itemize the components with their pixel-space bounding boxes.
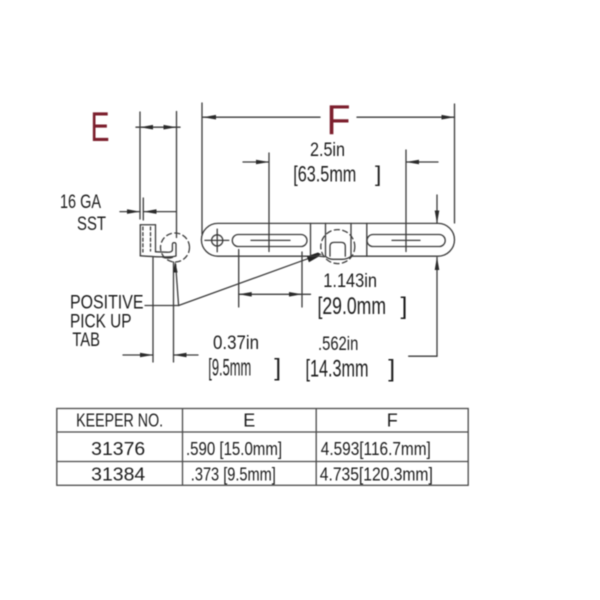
svg-text:31384: 31384 — [91, 465, 145, 485]
svg-text:2.5in: 2.5in — [310, 140, 345, 161]
svg-text:KEEPER NO.: KEEPER NO. — [76, 411, 163, 431]
svg-text:]: ] — [375, 162, 381, 187]
F right extension line — [454, 104, 456, 223]
0.37in right extension line — [173, 262, 175, 362]
svg-text:4.735[120.3mm]: 4.735[120.3mm] — [320, 465, 433, 485]
1.143in right extension line — [301, 252, 303, 307]
svg-text:F: F — [327, 96, 351, 143]
side view bottom and hook lip outer contour — [140, 243, 176, 257]
svg-text:.562in: .562in — [318, 334, 358, 355]
.562in up arrow line — [436, 258, 438, 357]
pick up tab arch — [330, 242, 345, 256]
hole crosshair vertical — [216, 229, 218, 252]
side view keeper right edge — [155, 225, 157, 252]
tab section line 4 — [366, 223, 368, 256]
2.5in left arrow line — [243, 161, 269, 163]
side view keeper top edge — [140, 224, 155, 226]
leader arrowhead at side-view tab — [173, 262, 178, 273]
16GA thickness second extension line — [142, 198, 144, 220]
table column line 2 — [315, 409, 317, 486]
F arrowhead right — [442, 115, 455, 120]
E arrowhead left — [140, 125, 153, 130]
table header separator — [57, 431, 468, 433]
svg-text:.590 [15.0mm]: .590 [15.0mm] — [186, 439, 282, 459]
F left extension line — [201, 103, 203, 234]
tab section line 3 — [350, 223, 352, 256]
16GA dimension left arrow line — [120, 211, 140, 213]
2.5in right extension line / slot2 centerline — [405, 150, 407, 252]
side view hidden line left — [142, 227, 144, 252]
E dimension line — [136, 126, 180, 128]
tab section line 2 — [325, 223, 327, 256]
svg-text:0.37in: 0.37in — [213, 333, 259, 354]
E arrowhead right — [164, 125, 177, 130]
table outer border — [57, 409, 468, 486]
2.5in right arrowhead — [406, 160, 419, 165]
svg-text:POSITIVE: POSITIVE — [70, 293, 144, 314]
svg-text:16 GA: 16 GA — [60, 192, 101, 213]
table row separator — [57, 461, 468, 463]
svg-text:4.593[116.7mm]: 4.593[116.7mm] — [321, 439, 431, 459]
1.143in arrowhead left — [239, 292, 252, 297]
bottom edge break at tab notch — [320, 255, 351, 258]
svg-text:1.143in: 1.143in — [323, 271, 377, 292]
table column line 1 — [182, 409, 184, 486]
svg-text:]: ] — [401, 293, 408, 320]
tab section line 1 — [310, 223, 312, 256]
svg-text:SST: SST — [77, 214, 106, 235]
F dimension line right segment — [357, 116, 455, 118]
leader branch to front-view tab — [179, 257, 312, 305]
.562in down arrowhead — [435, 211, 440, 224]
.562in leader horizontal to text — [409, 355, 437, 357]
svg-text:[14.3mm: [14.3mm — [306, 356, 369, 383]
svg-text:[63.5mm: [63.5mm — [293, 162, 356, 187]
svg-text:31376: 31376 — [91, 439, 145, 459]
1.143in left extension line — [238, 250, 240, 308]
.562in up arrowhead — [435, 257, 440, 270]
0.37in right arrow line — [174, 354, 199, 356]
side view detail dashed circle — [161, 233, 190, 262]
front view mounting hole — [212, 235, 223, 246]
svg-text:]: ] — [388, 356, 395, 383]
svg-text:E: E — [243, 411, 255, 431]
2.5in right arrow line — [407, 161, 439, 163]
1.143in dimension line — [239, 293, 311, 295]
svg-text:F: F — [387, 411, 398, 431]
2.5in left arrowhead — [256, 160, 269, 165]
0.37in left arrowhead — [140, 353, 153, 358]
table grid — [57, 409, 468, 486]
hole crosshair horizontal — [205, 239, 229, 241]
side view hidden line right — [150, 227, 152, 251]
E right extension line — [176, 112, 178, 238]
side view keeper left edge — [139, 225, 141, 256]
leader arrowhead at front-view tab — [307, 253, 322, 263]
0.37in left extension line — [152, 257, 154, 362]
slot 1 crosshair horizontal — [251, 239, 290, 241]
front view detail dashed circle — [321, 230, 355, 264]
0.37in right arrowhead — [174, 353, 187, 358]
side view lip bottom curl — [162, 257, 173, 258]
0.37in left arrow line — [123, 354, 153, 356]
svg-text:]: ] — [274, 355, 281, 382]
svg-text:[9.5mm: [9.5mm — [208, 355, 251, 382]
1.143in arrowhead right — [289, 292, 302, 297]
16GA dimension right arrow line — [144, 211, 177, 213]
leader horizontal stub from POSITIVE PICK UP TAB — [145, 305, 179, 307]
F dimension line left segment — [203, 116, 320, 118]
16GA right arrowhead — [144, 209, 157, 214]
E left extension line — [139, 112, 141, 219]
svg-text:TAB: TAB — [72, 330, 100, 351]
16GA left arrowhead — [127, 209, 140, 214]
.562in down arrow line — [436, 195, 438, 223]
svg-text:.373 [9.5mm]: .373 [9.5mm] — [191, 465, 276, 485]
2.5in left extension line / slot1 centerline — [268, 153, 270, 252]
svg-text:E: E — [91, 103, 110, 150]
front view keeper outline — [201, 223, 454, 256]
pick up tab notch below edge — [317, 255, 351, 259]
svg-text:[29.0mm: [29.0mm — [318, 293, 387, 320]
leader branch to side-view tab — [176, 264, 179, 306]
slot 2 crosshair horizontal — [392, 239, 420, 241]
F arrowhead left — [203, 115, 216, 120]
slot 2 — [367, 235, 445, 247]
slot 1 — [232, 235, 307, 247]
